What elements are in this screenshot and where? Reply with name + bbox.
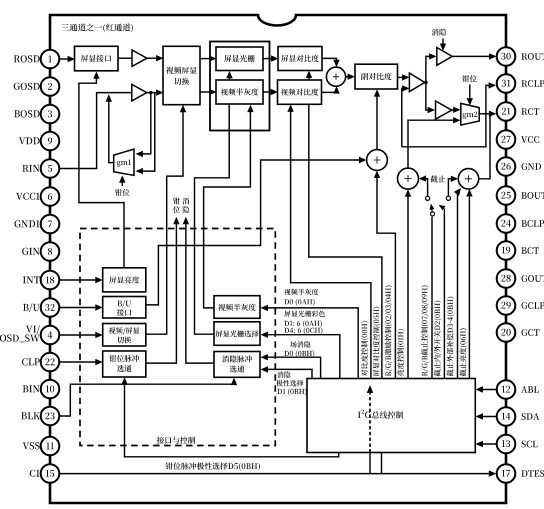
wire U7 to summing node S1	[322, 88, 337, 92]
vertical label 截止内/外开关D2(0BH)	[434, 301, 442, 377]
pin 5 RIN	[22, 159, 59, 178]
wire A5 output to gm2	[452, 109, 459, 111]
pin 1 ROSD	[14, 50, 60, 69]
pin 12 ABL	[497, 380, 539, 399]
wire I2C bottom to DTEST line second	[369, 453, 371, 474]
dashed box 接口与控制	[80, 229, 275, 446]
wire S2 output to U8 bottom	[376, 91, 378, 149]
net label 截止	[430, 175, 437, 182]
buffer A3	[409, 73, 424, 92]
block U5 屏显对比度	[278, 47, 322, 71]
buffer A1	[132, 50, 147, 66]
wire A3 node to cutoff buffer A5	[426, 82, 433, 110]
net label 钳位 at gm1	[115, 189, 122, 196]
pin 8 GIN	[22, 242, 59, 261]
pin 21 RCT	[497, 102, 540, 121]
wire right contact to S4 left	[448, 179, 456, 196]
pin 30 ROUT	[497, 47, 544, 66]
wire S3 output to gm2 lower input	[408, 120, 459, 168]
switch contact right	[446, 196, 450, 200]
pin 26 GND	[497, 157, 541, 176]
block U13 I2C bus control	[307, 379, 475, 453]
label 屏显光栅彩色	[284, 311, 291, 317]
pin 15 C1	[30, 464, 60, 483]
label 消隐极性选择 D1(0BH)	[277, 372, 283, 378]
wire U1 to buffer A1	[118, 57, 132, 59]
wire I2C contrast to U7 bottom	[291, 106, 371, 378]
pin 18 INT	[23, 271, 59, 290]
wire I2C to U10 right	[263, 308, 359, 379]
wire I2C cutoff compensation riser	[443, 214, 445, 379]
pin 6 VCC1	[16, 187, 59, 206]
label 钳位脉冲极性选择D5(0BH)	[166, 462, 173, 469]
pin 4 VI/OSD_SW	[0, 325, 59, 344]
wire U3 to U5 屏显对比度	[263, 58, 277, 60]
vertical label R/G/B截止控制(07/08/09H)	[421, 286, 429, 377]
pin 23 BLK	[21, 407, 59, 426]
wire U4 to U3 vertical	[229, 73, 231, 81]
wire I2C bottom to DTEST line	[381, 453, 383, 474]
summing node S1	[326, 67, 345, 86]
transconductance gm1	[114, 149, 134, 175]
vertical label R/G/B激励控制(02/03/04H)	[385, 286, 393, 377]
block U8L 视频/屏显切换	[103, 324, 146, 347]
wire I2C to U12 right upper	[263, 357, 321, 378]
wire I2C test dashed riser	[369, 388, 371, 453]
label I2C 总线控制	[358, 412, 361, 418]
wire A2 to U2 input	[147, 92, 162, 94]
wire U7 bottom to I2C sub-contrast	[309, 104, 382, 378]
pin 24 BCLP	[497, 214, 544, 233]
pin 10 BIN	[23, 380, 60, 399]
container box raster/halftone	[210, 42, 270, 131]
wire U7 to U5 vertical	[308, 72, 310, 80]
block U7 视频对比度	[278, 80, 322, 104]
transconductance gm2	[461, 103, 479, 125]
block U7L B/U接口	[103, 297, 146, 319]
wire S1 to U8 副对比度	[346, 76, 353, 78]
block U12 消隐脉冲选通	[214, 352, 260, 378]
junction A3 output node	[424, 81, 428, 85]
pin 9 VDD	[19, 132, 59, 151]
wire B/U interface to summing node S2	[146, 160, 365, 305]
wire U8L output riser to U2 bottom	[146, 107, 183, 334]
wire I2C D5 to U9 bottom	[125, 379, 339, 457]
summing node S4	[458, 169, 478, 189]
pin 28 GOUT	[497, 269, 544, 288]
wire U9 clamp pulse riser	[146, 222, 177, 363]
pin 17 DTEST	[497, 464, 544, 483]
wire BLK to U12 bottom	[60, 380, 235, 417]
wire gm1 feedback upper	[138, 93, 151, 154]
pin 19 BCT	[497, 241, 539, 260]
switch pole	[431, 212, 435, 216]
vertical label 对比度控制(00H)	[361, 321, 369, 376]
block U6 屏显亮度	[103, 268, 146, 292]
pin 3 BOSD	[14, 105, 59, 124]
wire ABL to I2C	[478, 389, 497, 391]
wire B/U to U7L	[60, 307, 101, 309]
wire I2C to S3 bottom	[407, 191, 409, 378]
pin 22 CLP	[22, 353, 59, 372]
pin 14 SDA	[497, 407, 540, 426]
summing node S3	[398, 168, 419, 189]
wire I2C to U11 right	[263, 335, 340, 379]
pin 32 B/U	[23, 298, 59, 317]
block U1 屏显接口	[75, 46, 119, 71]
wire U8 to buffer A3 upper input	[398, 76, 408, 78]
pin 7 GND1	[15, 215, 60, 234]
wire U6 屏显亮度 to U1 bottom	[79, 73, 124, 268]
wire RIN to buffer A2	[60, 93, 132, 169]
wire pin1 ROSD to U1	[60, 58, 74, 60]
label 接口与控制	[157, 437, 164, 444]
wire U5 to summing node S1	[322, 58, 337, 65]
wire clamp net to RCLP	[402, 85, 494, 146]
net label 消隐 at A4	[432, 29, 439, 36]
block U8 副对比度	[355, 64, 398, 89]
block U3 屏显光栅	[216, 47, 263, 71]
wire SCL to I2C	[478, 443, 497, 445]
vertical label 屏显对比度控制(05H)	[373, 307, 381, 377]
buffer A4 blanking	[437, 48, 452, 66]
block U11 屏显光栅选择	[214, 322, 260, 346]
wire VI/OSD_SW to U8L	[60, 334, 101, 336]
switch throw indicator	[443, 209, 445, 217]
net label 钳位 riser tag	[173, 198, 180, 205]
switch blade to left contact	[430, 207, 433, 212]
wire clamp feedback to A3 lower input	[402, 88, 408, 146]
wire U2 to U3 屏显光栅	[200, 58, 215, 60]
buffer A2	[132, 84, 147, 100]
wire switch pole to I2C	[431, 217, 433, 379]
pin 20 GCT	[497, 323, 540, 342]
wire U10 to U4 bottom arrow	[204, 107, 251, 308]
wire CLP to U9	[60, 361, 101, 363]
wire I2C cutoff to S4 bottom-left	[458, 190, 460, 379]
vertical label 亮度控制(01H)	[397, 329, 405, 376]
pin 11 VSS	[23, 437, 60, 456]
wire S4 output to RCT line	[479, 114, 490, 179]
pin 25 BOUT	[497, 186, 544, 205]
net label 钳位 at gm2	[462, 75, 469, 82]
vertical label 截止外部补偿D3-4(0BH)	[447, 297, 455, 377]
summing node S2	[367, 150, 388, 171]
wire U12 blanking riser	[186, 222, 214, 363]
wire gm1 feedback lower	[138, 93, 155, 172]
wire SDA to I2C	[478, 416, 497, 418]
block U10 视频半灰度	[214, 296, 260, 319]
junction on A2 output	[149, 91, 152, 94]
label 视频半灰度 D0(0AH)	[284, 289, 291, 295]
wire gm1 output to video input line	[109, 97, 114, 163]
pin 27 VCC	[497, 130, 540, 149]
pin 2 GOSD	[14, 77, 60, 96]
block U4 视频半灰度	[216, 80, 263, 104]
wire INT to U6	[60, 279, 101, 281]
block U9 钳位脉冲选通	[103, 351, 146, 377]
wire I2C cutoff brightness to S4 bottom	[468, 191, 470, 379]
net label 消隐 riser tag	[183, 198, 190, 205]
buffer A5 cutoff	[436, 101, 452, 119]
pin 29 GCLP	[497, 296, 544, 315]
vertical label 截止亮度(06H)	[460, 328, 468, 376]
wire A3 node to blanking buffer A4	[426, 56, 435, 82]
wire I2C brightness to S2 bottom	[377, 173, 395, 379]
wire U2 to U4 视频半灰度	[200, 91, 215, 93]
wire I2C test dashed riser	[369, 388, 371, 453]
wire U4 to U7 视频对比度	[263, 91, 276, 93]
wire gm2 output to pin21 RCT	[479, 113, 494, 115]
wire I2C to U12 right lower	[263, 369, 313, 378]
wire A4 output to pin30 ROUT	[452, 55, 494, 57]
label 场消隐 D0(0BH)	[290, 341, 297, 347]
pin 13 SCL	[497, 435, 538, 454]
pin 31 RCLP	[497, 74, 544, 93]
wire A1 to U2 input	[147, 57, 162, 59]
block U2 视频屏显切换	[163, 46, 200, 104]
wire C1 to DTEST	[60, 473, 495, 475]
wire U11 to U4 bottom	[195, 105, 230, 335]
switch contact left	[426, 196, 430, 200]
title 三通道之一(红通道)	[61, 24, 69, 31]
wire left contact to S3 right	[421, 179, 428, 197]
